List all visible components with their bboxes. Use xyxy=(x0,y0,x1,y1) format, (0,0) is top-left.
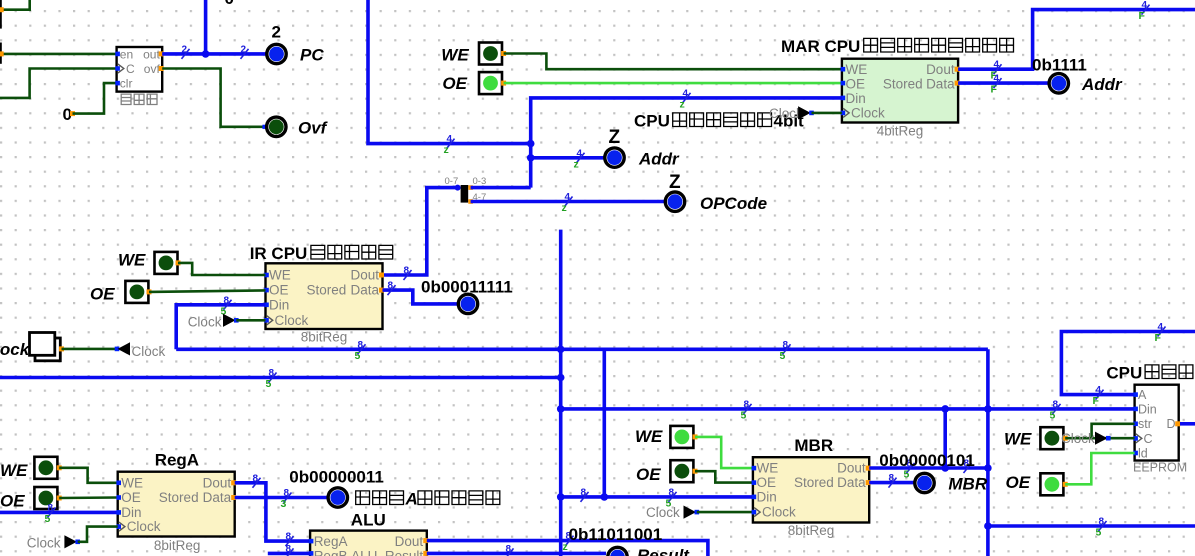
output pin Addr (MAR) xyxy=(1049,74,1068,93)
svg-text:F: F xyxy=(1155,332,1162,344)
button WE (MBR) xyxy=(670,426,693,448)
svg-text:z: z xyxy=(562,202,567,214)
svg-text:Dout: Dout xyxy=(837,461,866,476)
wire splitter leg 4-7 to OPCode xyxy=(471,200,665,204)
svg-text:0b11011001: 0b11011001 xyxy=(569,525,663,544)
svg-text:Data: Data xyxy=(350,283,379,298)
svg-text:MBR: MBR xyxy=(948,475,987,494)
svg-text:Z: Z xyxy=(609,127,621,148)
svg-text:Din: Din xyxy=(846,91,866,106)
wire MBR Dout xyxy=(869,466,988,470)
wire MAR Dout to top right xyxy=(958,10,1195,70)
svg-text:Dout: Dout xyxy=(926,62,955,77)
wire ALU result to pin xyxy=(427,552,606,556)
button OE (RegA) xyxy=(34,487,57,509)
svg-text:OE: OE xyxy=(636,465,661,484)
wire WE to MBR xyxy=(695,437,753,468)
wire MAR data to Addr pin xyxy=(958,81,1048,85)
svg-text:5: 5 xyxy=(266,378,272,390)
junction xyxy=(984,464,992,472)
svg-text:Clock: Clock xyxy=(762,505,796,520)
svg-text:Data: Data xyxy=(203,490,232,505)
svg-text:Stored: Stored xyxy=(307,283,347,298)
svg-text:en: en xyxy=(120,47,133,61)
svg-text:8: 8 xyxy=(581,487,587,498)
svg-text:Stored: Stored xyxy=(883,76,923,91)
partial component edge left-top xyxy=(0,0,2,29)
svg-text:OPCode: OPCode xyxy=(700,194,767,213)
svg-text:Stored: Stored xyxy=(794,475,834,490)
svg-text:0b00000101: 0b00000101 xyxy=(879,451,974,470)
wire tunnel to IR clock xyxy=(236,319,265,322)
wire MBR data to probe xyxy=(869,481,913,485)
svg-text:F: F xyxy=(1093,395,1100,407)
svg-text:Stored: Stored xyxy=(159,490,199,505)
svg-text:5: 5 xyxy=(355,350,361,362)
svg-text:IR CPU: IR CPU xyxy=(250,244,308,263)
svg-text:WE: WE xyxy=(441,46,469,65)
svg-text:RegA: RegA xyxy=(155,451,199,470)
junction xyxy=(527,154,535,162)
wire RegA data to test pin xyxy=(235,496,328,500)
counter U1 (PC counter) xyxy=(117,47,163,92)
bus vertical second xyxy=(602,349,606,497)
button WE (IR) xyxy=(155,252,178,274)
bus wire from left xyxy=(0,376,561,380)
clock CLK1 xyxy=(35,338,60,361)
svg-text:8bitReg: 8bitReg xyxy=(788,523,835,538)
wire ALU RegB input xyxy=(268,552,310,556)
button OE (IR) xyxy=(125,281,148,303)
wire tunnel to MBR clock xyxy=(697,511,753,514)
probe Addr xyxy=(605,148,624,167)
output pin PC xyxy=(267,44,286,63)
svg-text:Result: Result xyxy=(637,546,690,556)
svg-text:WE: WE xyxy=(846,62,868,77)
wire RegA Din xyxy=(0,511,118,515)
wire tunnel to MAR clock xyxy=(812,112,842,115)
junction xyxy=(984,522,992,530)
svg-text:2: 2 xyxy=(272,23,281,42)
wire OE to MAR xyxy=(504,82,842,85)
bus vertical right xyxy=(986,349,990,556)
svg-text:MAR CPU: MAR CPU xyxy=(781,37,860,56)
junction xyxy=(601,493,609,501)
svg-text:OE: OE xyxy=(846,76,866,91)
svg-text:A: A xyxy=(1138,388,1147,402)
svg-text:ALU_Result: ALU_Result xyxy=(351,548,423,556)
memory EEPROM xyxy=(1135,385,1179,461)
button OE (MAR) xyxy=(479,72,502,94)
wire WE to IR xyxy=(178,263,266,275)
svg-text:z: z xyxy=(574,158,579,170)
svg-text:Din: Din xyxy=(757,490,777,505)
wire C clock xyxy=(0,69,117,98)
bus wire to EEPROM Din xyxy=(561,407,1136,411)
bus vertical short xyxy=(943,409,947,468)
bus wire bottom right xyxy=(988,524,1195,528)
svg-text:5: 5 xyxy=(1096,527,1102,539)
wire WE to EEPROM str and C xyxy=(1065,437,1134,440)
wire RegA Dout to ALU xyxy=(235,483,310,541)
output pin Ovf xyxy=(267,117,286,136)
wire IR data out to pin xyxy=(383,290,458,304)
output pin RegA test xyxy=(328,488,347,507)
svg-text:OE: OE xyxy=(1006,473,1031,492)
svg-text:Addr: Addr xyxy=(1081,75,1123,94)
svg-text:PC: PC xyxy=(300,46,324,65)
svg-text:0-3: 0-3 xyxy=(473,176,487,187)
svg-text:0b00000011: 0b00000011 xyxy=(289,468,384,487)
register MAR 4bitReg xyxy=(842,59,958,123)
svg-text:RegB: RegB xyxy=(314,548,348,556)
svg-text:F: F xyxy=(991,84,998,96)
register RegA 8bitReg xyxy=(118,472,235,537)
svg-text:8: 8 xyxy=(286,544,292,555)
svg-text:CPU: CPU xyxy=(634,112,670,131)
output pin Result xyxy=(608,547,627,556)
wire en xyxy=(1,53,117,56)
svg-text:Clock: Clock xyxy=(1061,431,1095,446)
svg-text:WE: WE xyxy=(269,268,291,283)
svg-text:C: C xyxy=(126,62,135,76)
svg-text:5: 5 xyxy=(1050,409,1056,421)
svg-text:Dout: Dout xyxy=(350,268,379,283)
wire clock to tunnel xyxy=(62,348,118,351)
svg-text:Dout: Dout xyxy=(395,534,424,549)
svg-text:ALU: ALU xyxy=(351,511,386,530)
tunnel Clock (source) xyxy=(118,342,131,355)
svg-text:F: F xyxy=(1139,10,1146,22)
wire clr xyxy=(73,83,117,114)
wire EEPROM D out xyxy=(1180,422,1195,426)
svg-text:Din: Din xyxy=(121,505,141,520)
pin stub xyxy=(0,51,4,56)
svg-text:2: 2 xyxy=(241,44,247,55)
svg-text:5: 5 xyxy=(904,469,910,481)
svg-text:8: 8 xyxy=(404,266,410,277)
svg-text:5: 5 xyxy=(780,350,786,362)
bus wire to MBR Din xyxy=(561,495,753,499)
partial component edge left-second xyxy=(0,43,2,64)
register IR 8bitReg xyxy=(266,263,383,329)
svg-text:Clock: Clock xyxy=(0,340,31,359)
probe OPCode xyxy=(665,192,684,211)
svg-text:0-7: 0-7 xyxy=(445,176,459,187)
svg-text:ld: ld xyxy=(1138,446,1148,460)
svg-text:z: z xyxy=(563,541,568,553)
svg-text:WE: WE xyxy=(635,427,663,446)
svg-text:0: 0 xyxy=(225,0,234,8)
svg-text:clr: clr xyxy=(120,77,133,91)
junction xyxy=(941,464,949,472)
svg-text:WE: WE xyxy=(1004,430,1032,449)
svg-text:Data: Data xyxy=(926,76,955,91)
button OE (MBR) xyxy=(670,460,693,482)
wire MAR Din xyxy=(531,98,842,188)
svg-text:out: out xyxy=(143,47,160,61)
wire Z net to top xyxy=(368,0,531,144)
output pin IR value xyxy=(458,294,477,313)
wire IR Din xyxy=(176,305,265,350)
wire WE to RegA xyxy=(59,468,117,483)
svg-text:Clock: Clock xyxy=(188,315,222,330)
svg-text:OE: OE xyxy=(90,285,115,304)
svg-text:8: 8 xyxy=(388,281,394,292)
svg-text:8bitReg: 8bitReg xyxy=(154,538,201,553)
junction xyxy=(557,493,565,501)
wire tunnel to RegA clock xyxy=(78,527,118,542)
alu ALU box xyxy=(310,531,427,556)
svg-text:OE: OE xyxy=(269,283,289,298)
svg-text:Din: Din xyxy=(1138,403,1157,417)
svg-text:A: A xyxy=(405,490,418,509)
pin stub xyxy=(0,7,4,12)
svg-text:WE: WE xyxy=(757,461,779,476)
svg-text:Clock: Clock xyxy=(27,536,61,551)
wire ovf xyxy=(162,69,265,127)
svg-text:OE: OE xyxy=(0,492,25,511)
svg-text:Clock: Clock xyxy=(127,519,161,534)
svg-text:5: 5 xyxy=(741,409,747,421)
junction xyxy=(557,346,565,354)
svg-text:Clock: Clock xyxy=(132,344,166,359)
splitter SP1 xyxy=(461,185,469,203)
svg-text:3: 3 xyxy=(281,498,287,510)
svg-text:OE: OE xyxy=(121,490,141,505)
svg-text:2: 2 xyxy=(182,44,188,55)
svg-text:WE: WE xyxy=(121,475,143,490)
svg-text:MBR: MBR xyxy=(794,436,833,455)
wire IR Dout to splitter xyxy=(383,188,458,275)
svg-text:ovf: ovf xyxy=(144,62,161,76)
svg-text:0b1111: 0b1111 xyxy=(1032,56,1087,75)
junction xyxy=(527,140,535,148)
svg-text:Clock: Clock xyxy=(851,106,885,121)
junction xyxy=(557,405,565,413)
svg-text:4bitReg: 4bitReg xyxy=(877,124,924,139)
junction xyxy=(941,405,949,413)
register MBR 8bitReg xyxy=(753,457,869,522)
junction xyxy=(557,374,565,382)
svg-text:C: C xyxy=(1144,432,1153,446)
wire xyxy=(0,0,30,10)
wire EEPROM A xyxy=(1061,332,1195,395)
svg-text:Clock: Clock xyxy=(275,313,309,328)
svg-text:Data: Data xyxy=(837,475,866,490)
svg-text:Din: Din xyxy=(269,297,289,312)
bus wire net5 upper xyxy=(176,347,988,351)
svg-text:EEPROM: EEPROM xyxy=(1133,461,1187,475)
svg-text:Dout: Dout xyxy=(203,475,232,490)
svg-text:Addr: Addr xyxy=(638,150,680,169)
svg-text:z: z xyxy=(444,144,449,156)
svg-text:8bitReg: 8bitReg xyxy=(301,330,348,345)
svg-text:D: D xyxy=(1167,417,1176,431)
svg-text:8: 8 xyxy=(286,532,292,543)
svg-text:z: z xyxy=(680,98,685,110)
wire OE to EEPROM ld xyxy=(1065,453,1134,484)
wire to Addr probe xyxy=(531,156,605,160)
svg-text:RegA: RegA xyxy=(314,534,348,549)
button WE (EEPROM) xyxy=(1040,427,1063,449)
label 寄存器A测试用输出 xyxy=(356,491,370,505)
wire ALU Dout xyxy=(427,541,708,556)
svg-text:8: 8 xyxy=(889,473,895,484)
svg-text:CPU: CPU xyxy=(1106,364,1142,383)
svg-text:WE: WE xyxy=(118,251,146,270)
svg-text:Z: Z xyxy=(669,172,681,193)
wire WE to MAR xyxy=(504,54,842,70)
probe MBR xyxy=(915,473,934,492)
label 计数器 xyxy=(121,94,131,104)
wire OE to RegA xyxy=(59,496,117,499)
wire PC bus xyxy=(162,52,266,56)
button WE (MAR) xyxy=(479,43,502,65)
svg-text:Clock: Clock xyxy=(769,106,803,121)
svg-text:8: 8 xyxy=(253,473,259,484)
wire OE to IR xyxy=(149,290,266,292)
svg-text:OE: OE xyxy=(757,475,777,490)
svg-text:str: str xyxy=(1138,417,1152,431)
svg-text:Clock: Clock xyxy=(646,505,680,520)
svg-text:5: 5 xyxy=(45,513,51,525)
button OE (EEPROM) xyxy=(1040,473,1063,495)
wire OE to MBR xyxy=(695,471,753,482)
svg-text:OE: OE xyxy=(442,74,467,93)
junction xyxy=(984,405,992,413)
svg-text:Ovf: Ovf xyxy=(298,119,329,138)
bus vertical main xyxy=(559,230,563,556)
svg-text:WE: WE xyxy=(0,461,28,480)
button WE (RegA) xyxy=(34,457,57,479)
svg-text:8: 8 xyxy=(506,544,512,555)
wire splitter leg 0-3 xyxy=(471,186,531,190)
